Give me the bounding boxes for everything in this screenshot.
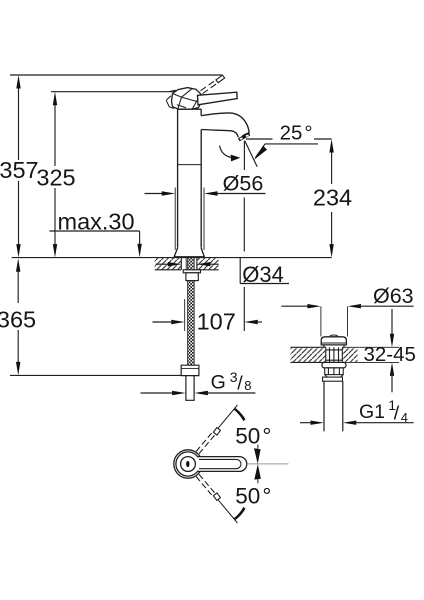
dimension 357 arrows (16, 75, 20, 89)
deck bottom line (155, 269, 182, 271)
deck hatch left (155, 258, 182, 269)
reference line at head top height (51, 91, 179, 93)
faucet body right edge (200, 109, 202, 116)
dashed raised lever (201, 80, 219, 94)
25 degree label underline (265, 143, 318, 145)
dimension 325 vertical line (54, 98, 56, 166)
countertop deck line (12, 257, 332, 259)
handle top view circles (174, 450, 247, 478)
dimension 357 vertical line (18, 81, 20, 160)
svg-text:234: 234 (313, 184, 352, 210)
faucet spout outline (201, 113, 249, 136)
lever rod (198, 92, 238, 105)
handle centerline (247, 463, 289, 465)
drain deck hatch (291, 348, 326, 362)
upper dashed lever tip cap (213, 428, 220, 436)
raised handle position lower dashed (196, 474, 215, 495)
handle top view lever (198, 457, 247, 472)
dimension Ø56 extension lines (174, 188, 176, 251)
max.30 leader line (49, 230, 139, 232)
svg-text:50°: 50° (235, 424, 271, 449)
lower dashed lever tip cap (213, 493, 220, 501)
svg-text:107: 107 (197, 309, 236, 335)
hose end reference line (10, 374, 181, 376)
svg-text:/: / (237, 372, 243, 394)
raised handle position upper dashed (196, 432, 215, 453)
top reference line at lever tip height (10, 74, 222, 76)
dimension 234 vertical line (331, 146, 333, 185)
svg-text:G1: G1 (359, 401, 385, 423)
threaded mounting rod (188, 258, 195, 270)
drain seal washer (322, 362, 346, 368)
drain extension lines (320, 307, 322, 337)
drain slotted body (326, 347, 343, 362)
upper 50 degree arc arrowhead (234, 408, 246, 421)
dimension 325 arrows (53, 92, 57, 106)
horseshoe washer (183, 270, 200, 273)
faucet body left edge (174, 109, 204, 257)
svg-text:/: / (394, 402, 400, 424)
svg-text:Ø34: Ø34 (242, 262, 284, 287)
faucet head sketch (166, 88, 201, 110)
drain tail pipe (323, 381, 325, 431)
angle bowtie arrows at centerline (254, 448, 261, 464)
dimension 107 line and arrows (153, 321, 172, 323)
drain neck (324, 345, 344, 347)
svg-text:Ø56: Ø56 (223, 171, 264, 195)
dimension 365 vertical line (17, 264, 19, 303)
svg-text:Ø63: Ø63 (373, 284, 414, 308)
deck hole edges (180, 258, 182, 270)
dimension Ø63 line and arrows (281, 305, 307, 307)
flow direction curved arrow (220, 146, 232, 158)
25 degree leader diagonal (256, 144, 266, 158)
dimension 32-45 line and arrows (391, 309, 393, 334)
svg-text:32-45: 32-45 (364, 343, 416, 366)
dimension G3/8 line and arrows (141, 392, 173, 394)
faucet base flare (174, 248, 204, 257)
drain lock nut (323, 368, 344, 381)
svg-text:max.30: max.30 (58, 209, 135, 235)
spout aerator (238, 132, 250, 141)
supply connection nut G3/8 (181, 365, 199, 375)
drain cap (321, 337, 346, 345)
25 degree slanted line (245, 141, 257, 167)
upper 50 degree extension line (218, 405, 238, 429)
lower 50 degree arc arrowhead (234, 507, 246, 520)
mounting nut (186, 273, 198, 281)
spout outlet vertical reference (243, 141, 245, 171)
25 degree reference leader (246, 138, 273, 140)
raised lever tip cap (216, 75, 225, 83)
drain deck lines (291, 346, 326, 348)
dimension Ø34 arrows in deck (156, 263, 169, 265)
svg-text:4: 4 (401, 410, 408, 425)
svg-text:25°: 25° (280, 122, 313, 145)
svg-text:G: G (211, 371, 226, 393)
svg-text:8: 8 (244, 378, 251, 393)
faucet head base line (178, 108, 202, 110)
dimension Ø56 line and arrows (145, 193, 163, 195)
svg-text:50°: 50° (235, 484, 271, 509)
svg-text:365: 365 (0, 307, 36, 333)
faucet axis extension line (184, 299, 186, 331)
faucet body seam (178, 164, 202, 166)
dimension 365 arrows (16, 258, 20, 272)
deck hatch right (197, 258, 219, 269)
drain cap knob (330, 335, 337, 337)
svg-text:325: 325 (36, 164, 75, 190)
lower 50 degree extension line (218, 499, 238, 523)
svg-text:357: 357 (0, 157, 39, 183)
supply nipple (186, 376, 194, 401)
dimension G1 1/4 line and arrows (300, 422, 311, 424)
Ø34 label leader step (239, 258, 241, 284)
